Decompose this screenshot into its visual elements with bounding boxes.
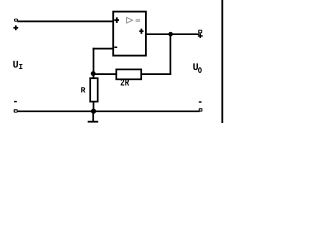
op-amp output + label (139, 29, 143, 34)
resistor 2R (horizontal) (116, 69, 141, 79)
op-amp U1 (DIN rectangle symbol) (113, 12, 146, 56)
label - at lower-left terminal (14, 101, 17, 102)
op-amp + input label (114, 17, 119, 23)
terminal output - (bottom-right) (199, 108, 203, 111)
wire vertical feedback branch (93, 48, 95, 79)
svg-text:R: R (81, 87, 86, 96)
terminal input + (top-left) (14, 19, 18, 22)
node C junction (output / feedback) (168, 32, 173, 37)
wire 2R right segment (141, 73, 171, 75)
wire op-amp output (146, 33, 199, 35)
op-amp triangle gain symbol (127, 17, 133, 23)
node A junction (feedback / R / 2R) (91, 71, 96, 76)
resistor R (vertical) (90, 78, 98, 101)
wire top input (+) from terminal to op-amp (17, 20, 113, 22)
wire 2R left segment (94, 73, 117, 75)
terminal input - (bottom-left) (14, 109, 18, 112)
terminal output + (top-right) (198, 30, 202, 34)
wire vertical output feedback (169, 34, 171, 75)
label - at lower-right terminal (199, 101, 202, 102)
node B junction (R / bottom rail / ground) (91, 109, 96, 114)
ground (92, 111, 94, 121)
svg-text:2R: 2R (120, 79, 129, 90)
page border (right rule) (221, 0, 223, 123)
op-amp - input label (114, 47, 117, 49)
svg-text:I: I (19, 64, 24, 72)
wire R bottom lead (93, 102, 95, 112)
op-amp infinity gain label (136, 20, 140, 22)
wire op-amp inverting input feedback (93, 48, 114, 50)
label + at output terminal (198, 33, 203, 38)
svg-text:U: U (193, 63, 199, 74)
wire bottom rail (17, 110, 200, 112)
label + at input terminal (13, 25, 18, 30)
